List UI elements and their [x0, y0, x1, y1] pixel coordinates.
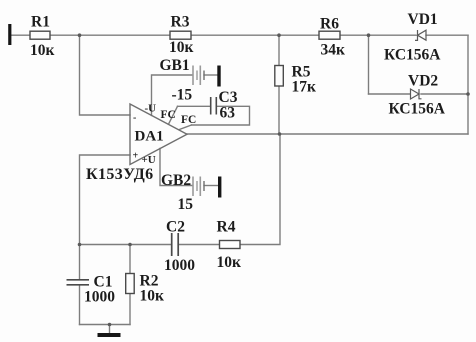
svg-text:+: + — [133, 151, 139, 162]
battery GB1 — [160, 57, 205, 103]
svg-text:1000: 1000 — [84, 288, 115, 305]
svg-text:10к: 10к — [30, 42, 55, 59]
resistor R3 — [169, 14, 194, 56]
svg-text:63: 63 — [220, 104, 236, 121]
ground — [98, 333, 121, 337]
wire R5 bottom leg — [278, 86, 280, 134]
input terminal — [8, 24, 11, 45]
wire C2 to R4 — [179, 244, 220, 246]
svg-text:R1: R1 — [31, 14, 50, 31]
svg-text:FC: FC — [181, 114, 196, 126]
node dot R2 top junction — [128, 243, 132, 247]
resistor R2 — [126, 273, 164, 305]
wire R2 top leg — [129, 245, 131, 274]
capacitor C3 — [211, 89, 238, 121]
node dot R1/R3 junction — [78, 33, 82, 37]
svg-text:1000: 1000 — [164, 257, 195, 274]
resistor R6 — [319, 16, 345, 59]
svg-text:GB1: GB1 — [160, 57, 190, 74]
wire output node down to R4 row — [240, 134, 280, 245]
svg-text:10к: 10к — [140, 287, 165, 304]
wire output rail — [187, 133, 468, 135]
wire GB2 to terminal — [204, 185, 218, 187]
wire ground rail — [80, 324, 131, 326]
svg-text:17к: 17к — [292, 79, 317, 96]
svg-text:10к: 10к — [217, 254, 242, 271]
wire inverting input branch — [80, 35, 131, 115]
op-amp DA1 — [130, 102, 187, 166]
svg-text:К153УД6: К153УД6 — [86, 166, 154, 183]
zener diode VD2 — [389, 72, 446, 117]
wire non-inverting input branch — [80, 155, 131, 245]
wire R5 top leg — [278, 35, 280, 65]
terminal of GB1 — [217, 66, 220, 87]
wire ground stub — [109, 325, 111, 334]
svg-text:C2: C2 — [166, 219, 185, 236]
svg-text:КС156А: КС156А — [389, 100, 446, 117]
wire C1 top leg — [79, 245, 81, 280]
node dot R5 top junction — [277, 33, 281, 37]
svg-text:VD1: VD1 — [408, 11, 438, 28]
node dot zener branch top junction — [367, 33, 371, 37]
svg-text:FC: FC — [161, 109, 176, 121]
node dot non-inverting node junction — [78, 243, 82, 247]
node dot output junction — [278, 132, 282, 136]
wire R3 to R6 — [191, 34, 319, 36]
svg-text:-: - — [133, 113, 136, 124]
wire VD2 row left — [369, 93, 411, 95]
node dot VD2 right junction — [466, 92, 470, 96]
wire FC1 pin — [169, 106, 178, 124]
capacitor C2 — [164, 219, 195, 275]
wire R2 bottom leg — [129, 294, 131, 325]
wire C3 loop top right and right side — [192, 106, 250, 125]
node dot ground junction — [108, 323, 112, 327]
svg-text:15: 15 — [178, 196, 194, 213]
wire right vertical rail — [467, 35, 469, 134]
wire R1 to R3 — [50, 34, 170, 36]
battery GB2 — [161, 172, 204, 213]
resistor R4 — [217, 219, 242, 271]
svg-text:-15: -15 — [172, 86, 193, 103]
svg-text:R6: R6 — [320, 16, 339, 33]
wire GB2 positive supply pin — [160, 148, 193, 185]
svg-text:R3: R3 — [171, 14, 190, 31]
svg-text:R4: R4 — [217, 219, 236, 236]
wire VD1 to right rail — [426, 34, 468, 36]
wire bottom rail to C2 — [80, 244, 172, 246]
wire top rail left: terminal to R1 — [11, 34, 30, 36]
terminal of GB2 — [218, 177, 221, 198]
wire FC2 pin — [179, 125, 192, 130]
zener diode VD1 — [384, 11, 441, 63]
wire R6 to VD1 — [340, 34, 416, 36]
resistor R5 — [275, 63, 316, 95]
svg-text:+U: +U — [142, 154, 156, 166]
wire vertical from node A down to VD2 row — [368, 35, 370, 94]
wire GB1 to terminal — [204, 74, 218, 76]
capacitor C1 — [67, 274, 116, 306]
svg-text:GB2: GB2 — [161, 172, 191, 189]
svg-text:VD2: VD2 — [408, 72, 438, 89]
svg-text:34к: 34к — [321, 42, 346, 59]
svg-text:-U: -U — [145, 102, 157, 114]
svg-text:КС156А: КС156А — [384, 46, 441, 63]
wire VD2 to right rail — [421, 93, 468, 95]
wire C1 bottom leg — [79, 285, 81, 325]
resistor R1 — [30, 14, 55, 59]
wire C3 loop top left — [178, 105, 211, 107]
svg-text:DA1: DA1 — [135, 129, 164, 145]
svg-text:10к: 10к — [169, 39, 194, 56]
wire GB1 negative supply pin — [152, 75, 193, 115]
